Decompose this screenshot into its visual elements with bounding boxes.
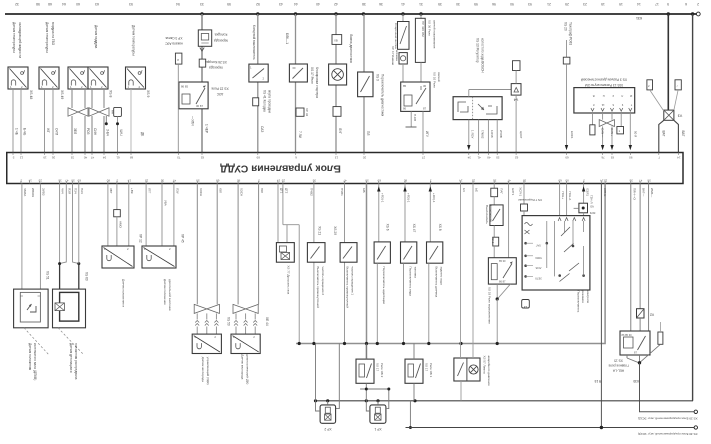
wire mode pin1 [559, 184, 561, 216]
svg-text:ХР 12: ХР 12 [139, 234, 143, 243]
open arrowhead on wire [200, 48, 204, 52]
svg-text:XS 30 Блок предохранителей, жг: XS 30 Блок предохранителей, жгут ЭСУД [637, 432, 697, 436]
svg-text:76: 76 [601, 156, 605, 160]
wire V3 to ECU BAT right [674, 120, 679, 152]
svg-text:ПЗЧ: ПЗЧ [74, 188, 78, 194]
wire K30 down [640, 363, 695, 412]
svg-text:переезда: переезда [214, 39, 228, 43]
svg-text:89: 89 [256, 156, 260, 160]
wire overheat relay right pin [508, 184, 510, 258]
connector above V4 small box [513, 61, 521, 71]
svg-text:аварийного давления: аварийного давления [487, 356, 491, 386]
wire tps1 pin2 lower [116, 217, 118, 246]
svg-text:накала АЗС: накала АЗС [165, 42, 183, 46]
svg-text:вставка: вставка [395, 50, 399, 61]
wire knock connector to ECU with node [117, 116, 119, 152]
svg-text:Датчик кислорода: Датчик кислорода [201, 357, 205, 382]
svg-text:62: 62 [515, 156, 519, 160]
svg-text:ЕЗЯ1: ЕЗЯ1 [585, 189, 589, 197]
svg-text:61: 61 [116, 156, 120, 160]
svg-text:переезда: переезда [209, 66, 223, 70]
svg-text:Главное реле: Главное реле [608, 364, 628, 368]
wire tps2 pin2 [161, 184, 163, 247]
wire O2-1 drops with break marks [196, 313, 198, 319]
terminal open circle K15 rail [694, 426, 697, 429]
svg-text:50Б9: 50Б9 [535, 256, 542, 260]
wire relay1 top [365, 344, 367, 360]
svg-text:АМО: АМО [119, 221, 123, 229]
svg-text:XS 15: XS 15 [614, 359, 623, 363]
wire XS 8 to rail [428, 263, 430, 343]
svg-text:80: 80 [237, 179, 241, 183]
wire stub drop to injector2 right [386, 389, 389, 409]
wire to brake switch [493, 197, 495, 205]
svg-text:ЕЗГ1: ЕЗГ1 [511, 188, 515, 195]
relay XS17-1 box [405, 359, 423, 383]
svg-text:BAT: BAT [661, 131, 665, 137]
svg-text:47: 47 [65, 179, 69, 183]
svg-text:86 85 30: 86 85 30 [622, 333, 633, 337]
injector XP1 box [370, 405, 386, 423]
svg-text:64: 64 [62, 2, 66, 6]
terminal box with node [579, 203, 588, 213]
svg-text:13: 13 [524, 305, 528, 309]
svg-text:АЗС: АЗС [216, 92, 223, 96]
svg-text:XS 8: XS 8 [438, 224, 442, 231]
svg-text:69: 69 [77, 179, 81, 183]
svg-text:7 ЛИ: 7 ЛИ [298, 131, 302, 139]
svg-text:ЛУГ: ЛУГ [338, 128, 342, 134]
svg-text:Переключатель вида: Переключатель вида [409, 267, 413, 297]
ECU bottom pin numbers [20, 181, 22, 184]
svg-text:86: 86 [403, 107, 407, 111]
wire right border feeder [692, 14, 694, 401]
svg-text:25: 25 [281, 179, 285, 183]
wire knock core right join [73, 184, 79, 264]
wire connector slant to node [640, 344, 660, 362]
svg-text:85: 85 [403, 84, 407, 88]
svg-text:XS 36 Реле: XS 36 Реле [428, 20, 432, 36]
wire fused feeder 403 upper [402, 14, 404, 22]
svg-text:15: 15 [601, 2, 605, 6]
wire thick feeder 605 [296, 184, 605, 344]
connector block Kolodka box [198, 30, 211, 46]
svg-text:Выключатель: Выключатель [485, 205, 489, 224]
svg-text:17: 17 [655, 2, 659, 6]
svg-text:34: 34 [467, 156, 471, 160]
injector XP2 box [320, 405, 336, 423]
wire XP3 to ECU [177, 64, 179, 152]
svg-text:Выключатель промежуточной: Выключатель промежуточной [316, 267, 320, 309]
wire 339 drop to injector1 [336, 344, 340, 409]
wire connector slant to V3 [650, 90, 664, 111]
svg-text:ХСЯ-1: ХСЯ-1 [519, 187, 523, 196]
relay output stub to glow plugs [410, 111, 412, 127]
suppressor V3 box [664, 110, 674, 120]
svg-text:Я 15: Я 15 [594, 379, 601, 383]
svg-text:V5: V5 [590, 205, 594, 209]
svg-text:Лампа диагностики: Лампа диагностики [349, 34, 353, 63]
terminal open circle K30 rail [694, 410, 697, 413]
svg-text:XS 13 Регулятор: XS 13 Регулятор [476, 38, 480, 63]
svg-text:В: В [593, 94, 595, 98]
svg-text:32: 32 [15, 2, 19, 6]
svg-text:АГ 6: АГ 6 [491, 237, 495, 243]
svg-text:Л: Л [177, 58, 179, 62]
wire main relay pin3 [648, 184, 650, 332]
svg-text:Переключатель: Переключатель [577, 291, 581, 313]
connector right of V3 small box [675, 80, 681, 90]
svg-text:управляющий (УДК): управляющий (УДК) [206, 357, 210, 385]
svg-text:контроля: контроля [586, 291, 590, 304]
svg-text:топлива: топлива [413, 267, 417, 279]
svg-text:6: 6 [685, 2, 687, 6]
wire mode pin3 with arrow [583, 184, 585, 204]
svg-text:+В9: +В9 [130, 188, 134, 194]
diode V4 box [511, 84, 521, 96]
svg-text:68: 68 [48, 2, 52, 6]
svg-text:ДД: ДД [111, 110, 115, 114]
svg-text:НЕL-LA: НЕL-LA [612, 369, 624, 373]
wire combo bottom drop [460, 381, 462, 401]
svg-text:13: 13 [335, 156, 339, 160]
svg-text:дроссельной заслонки: дроссельной заслонки [168, 279, 172, 311]
node junctions on injector rail [314, 399, 317, 402]
svg-text:Реле ЭБ 2: Реле ЭБ 2 [380, 363, 384, 378]
svg-text:ЗВГ: ЗВГ [109, 188, 113, 194]
wire mode pin2 [566, 184, 568, 216]
svg-text:80: 80 [565, 179, 569, 183]
svg-text:96: 96 [492, 2, 496, 6]
svg-text:003 13 Разъем жгута ОМ: 003 13 Разъем жгута ОМ [585, 83, 623, 87]
svg-text:47: 47 [172, 179, 176, 183]
svg-text:Выключатель промежуточной: Выключатель промежуточной [346, 267, 350, 309]
svg-text:заднего хода: заднего хода [439, 267, 443, 285]
relay output stub [360, 388, 389, 390]
twisted pair symbol 1 [68, 108, 88, 116]
relay XS15 AZS box [179, 82, 208, 109]
svg-text:свечей накаливания: свечей накаливания [432, 20, 436, 49]
wire relay2 drop to K15 rail [409, 401, 411, 428]
svg-text:+ЯЗ(-1: +ЯЗ(-1 [432, 193, 436, 203]
svg-text:ПЧВ2: ПЧВ2 [310, 188, 314, 196]
wire main relay pin2 lower [639, 318, 641, 331]
svg-text:82: 82 [201, 156, 205, 160]
wire battery feeder [667, 14, 669, 110]
svg-text:К7В-Е: К7В-Е [603, 188, 607, 196]
svg-text:58: 58 [36, 2, 40, 6]
svg-text:М: М [630, 94, 632, 98]
svg-text:XS 8: XS 8 [109, 90, 113, 97]
svg-text:ПЯН—О: ПЯН—О [632, 188, 636, 200]
svg-text:Датчик температуры: Датчик температуры [45, 22, 49, 53]
svg-text:19: 19 [619, 2, 623, 6]
svg-text:41: 41 [401, 2, 405, 6]
wire bosch pin2 to ECU [478, 120, 480, 152]
svg-text:охлаждающей жидкости: охлаждающей жидкости [18, 22, 22, 58]
svg-text:ИМ6—: ИМ6— [650, 188, 654, 197]
fusible link box 421 [415, 18, 425, 62]
svg-text:14: 14 [677, 156, 681, 160]
svg-text:ГЛ682: ГЛ682 [481, 130, 485, 139]
svg-text:ЛГГ: ЛГГ [148, 188, 152, 194]
svg-text:55: 55 [496, 156, 500, 160]
wire stub drop to box [286, 225, 288, 243]
connector small box right [658, 332, 663, 344]
connector left of V3 small box [647, 80, 653, 90]
speed switch XS29 box [340, 243, 357, 263]
svg-text:14: 14 [600, 179, 604, 183]
svg-text:диагностический (ДК): диагностический (ДК) [246, 354, 250, 384]
wire XS 47 to rail [403, 263, 405, 343]
svg-text:1 ЯЗУ: 1 ЯЗУ [471, 130, 475, 138]
svg-text:25: 25 [472, 179, 476, 183]
terminal K31 open circle [696, 12, 700, 16]
svg-text:36: 36 [58, 179, 62, 183]
svg-text:Датчик положения и: Датчик положения и [122, 279, 126, 308]
svg-text:ПЛ: ПЛ [366, 131, 370, 135]
wire V4 to ECU [515, 95, 517, 152]
svg-text:36: 36 [312, 179, 316, 183]
svg-text:25: 25 [38, 179, 42, 183]
svg-text:14: 14 [127, 179, 131, 183]
svg-text:V3: V3 [678, 114, 682, 118]
svg-text:частоты вращения 2: частоты вращения 2 [321, 267, 325, 296]
selector switch box XS 47 [401, 242, 417, 263]
svg-text:XS 3 Разъем диагностический: XS 3 Разъем диагностический [581, 78, 627, 82]
connector XB1 small box [332, 35, 342, 45]
svg-text:режимов: режимов [581, 291, 585, 304]
wire relay2 top [413, 344, 415, 360]
svg-text:торможения: торможения [489, 205, 493, 222]
svg-text:ЫБ: ЫБ [362, 188, 366, 193]
svg-text:30: 30 [456, 2, 460, 6]
svg-text:85 30: 85 30 [499, 259, 506, 263]
injector supply rail [316, 400, 694, 402]
wire XS 6 with up arrow [378, 184, 380, 242]
wire XS8 pair B lower to ECU [91, 116, 93, 152]
lamp diagnostics box [329, 64, 347, 85]
svg-text:21: 21 [547, 2, 551, 6]
svg-text:Блок управления СУДД: Блок управления СУДД [220, 163, 341, 174]
wire fuse to relay [493, 246, 495, 258]
svg-text:ЬЧ: ЬЧ [462, 188, 466, 192]
shield drain stub with node [105, 116, 107, 124]
svg-text:50 Я: 50 Я [633, 131, 637, 137]
wire link to relay [420, 62, 422, 82]
connector XS41 small box [253, 98, 259, 106]
svg-text:44: 44 [294, 2, 298, 6]
wire diag pin4 down [620, 113, 622, 127]
svg-text:ХР 3 Свеча: ХР 3 Свеча [165, 36, 182, 40]
wire thick feeder 202 [201, 14, 203, 152]
relay XS17-2 box [356, 359, 374, 383]
ECU top pin numbers [12, 153, 14, 156]
svg-text:20: 20 [363, 156, 367, 160]
svg-text:жгута проводки: жгута проводки [268, 90, 272, 113]
wire connector to V3 right [674, 90, 678, 110]
node junctions on supply bus [200, 12, 203, 15]
svg-text:ЮЛ: ЮЛ [260, 188, 264, 193]
wire O2-2 pair to bowtie [237, 184, 239, 305]
wire knock shield left [59, 184, 61, 264]
svg-text:Н: Н [603, 94, 605, 98]
wire XS8 pair A lower to ECU [71, 116, 73, 152]
svg-text:CAN+: CAN+ [610, 128, 614, 136]
fuse AG6 box [493, 237, 499, 246]
svg-text:ПЧВ1: ПЧВ1 [340, 188, 344, 196]
crank sensor XS51 box [14, 289, 49, 328]
wire XS48 pin1 to ECU [12, 89, 14, 152]
svg-text:2: 2 [697, 2, 699, 6]
idle actuator XS13 BOSCH box [453, 97, 502, 120]
svg-text:41: 41 [477, 156, 481, 160]
wire fused feeder 421 upper [420, 14, 422, 18]
svg-text:26: 26 [52, 156, 56, 160]
svg-text:ЧАЧ: ЧАЧ [61, 188, 65, 194]
svg-text:Датчик детонации и: Датчик детонации и [69, 343, 73, 373]
svg-text:V2: V2 [650, 313, 654, 317]
svg-text:Г2Н-Л: Г2Н-Л [590, 195, 594, 203]
svg-text:42: 42 [334, 2, 338, 6]
svg-text:УБА: УБА [164, 200, 168, 206]
node main relay output [638, 361, 641, 364]
svg-text:ХЕ 44: ХЕ 44 [265, 317, 269, 326]
wire CAN- to ECU with arrow [602, 126, 604, 148]
svg-text:54: 54 [103, 156, 107, 160]
connector under pin1 small box [590, 125, 595, 135]
sensor XS8b second cell [88, 67, 108, 89]
svg-text:XS 57 Лампа: XS 57 Лампа [482, 356, 486, 374]
svg-text:43: 43 [279, 2, 283, 6]
svg-text:36: 36 [629, 179, 633, 183]
svg-text:47: 47 [343, 179, 347, 183]
svg-text:З-БЧ: З-БЧ [106, 129, 110, 136]
svg-text:69: 69 [377, 179, 381, 183]
svg-text:СИН: СИН [93, 128, 97, 136]
wire XS 8 with up arrow [429, 184, 431, 242]
svg-text:14: 14 [28, 179, 32, 183]
wire loop to injector1 [316, 401, 321, 411]
wire XS 47 with up arrow [404, 184, 406, 242]
connector tacho small box [563, 57, 570, 64]
svg-text:воздуха на ГБО: воздуха на ГБО [51, 22, 55, 46]
svg-text:23: 23 [583, 2, 587, 6]
connector under pin4 small box [617, 127, 624, 134]
speed switch XS21 box [307, 243, 325, 263]
svg-text:ИГУ: ИГУ [425, 131, 429, 138]
throttle actuator XS77 box [276, 243, 294, 263]
svg-text:XS 26 Колодка: XS 26 Колодка [205, 60, 227, 64]
twisted pair symbol 2 [89, 108, 109, 116]
svg-text:Концевой выключатель: Концевой выключатель [252, 25, 256, 60]
svg-text:БЛК—1: БЛК—1 [285, 33, 289, 44]
svg-text:27: 27 [422, 156, 426, 160]
switch box pedal [249, 64, 268, 82]
wire crank pin1 [21, 184, 23, 290]
svg-text:XS 77 Дроссель газа: XS 77 Дроссель газа [286, 265, 290, 294]
diagnostic connector XS3 box [574, 88, 635, 113]
wire terminal to mode box [583, 213, 585, 216]
sensor XS9 fuel temp sensor box [126, 67, 146, 89]
svg-text:XS 20: XS 20 [564, 22, 568, 31]
sensor XS48 coolant temp sensor box [8, 67, 28, 89]
svg-text:69: 69 [558, 179, 562, 183]
svg-text:Переключатель адаптации: Переключатель адаптации [382, 267, 386, 305]
svg-text:40: 40 [316, 2, 320, 6]
svg-text:ПАГ: ПАГ [500, 188, 504, 194]
svg-text:XS 10 Реле: XS 10 Реле [433, 72, 437, 88]
wire stub horizontal [283, 224, 299, 226]
wire CAN+ to ECU with arrow [611, 126, 613, 148]
wire tps1 pin3 [128, 184, 130, 247]
svg-text:свечей: свечей [437, 72, 441, 82]
svg-text:ИВ901: ИВ901 [31, 188, 35, 197]
wire main relay pin1 [630, 184, 632, 332]
wire relay1 bottom to stub [365, 383, 367, 401]
throttle sensor XS45 box [142, 246, 176, 268]
svg-text:ХЗСН: ХЗСН [240, 188, 244, 196]
wire pedal switch feeder [257, 14, 259, 152]
svg-text:14: 14 [637, 2, 641, 6]
wire connector to V4 [515, 71, 517, 84]
connector XS26 small box [199, 59, 206, 67]
svg-text:58: 58 [523, 179, 527, 183]
svg-text:ЖГ: ЖГ [46, 128, 50, 133]
twisted pair symbol CAN [599, 120, 614, 127]
sensor XS8 boost pressure sensor box [68, 67, 88, 89]
svg-text:ДГ1: ДГ1 [280, 188, 284, 194]
svg-text:86 87: 86 87 [499, 280, 506, 284]
wire XS77 pin1 [277, 184, 279, 243]
mode selector switch box [522, 216, 590, 290]
svg-text:XS 59: XS 59 [227, 317, 231, 326]
svg-text:ЯЗЯ: ЯЗЯ [68, 188, 72, 194]
svg-text:48: 48 [487, 156, 491, 160]
svg-text:1 ЧБ: 1 ЧБ [15, 128, 19, 135]
knock sensor connector small box [114, 107, 122, 116]
svg-text:Датчик положения: Датчик положения [163, 279, 167, 305]
svg-text:XS 41 Колодка: XS 41 Колодка [263, 90, 267, 112]
svg-text:90: 90 [629, 156, 633, 160]
svg-text:ХР2: ХР2 [589, 211, 595, 215]
svg-text:63: 63 [95, 2, 99, 6]
wire tps2 pin3 [173, 184, 175, 247]
svg-text:ГСН-А: ГСН-А [568, 192, 572, 201]
svg-text:CAN—: CAN— [600, 128, 604, 137]
svg-text:90: 90 [510, 2, 514, 6]
svg-text:58: 58 [647, 179, 651, 183]
wire bosch pin3 to ECU [487, 120, 489, 152]
svg-text:19: 19 [43, 156, 47, 160]
connector XP3 small box [175, 53, 182, 64]
svg-text:XS 21: XS 21 [318, 226, 322, 235]
svg-text:47: 47 [639, 179, 643, 183]
svg-text:XS 48: XS 48 [29, 90, 33, 99]
wire bosch pin1 above [468, 90, 470, 97]
svg-text:30: 30 [423, 84, 427, 88]
svg-text:75: 75 [177, 156, 181, 160]
svg-text:ЮЛ: ЮЛ [219, 188, 223, 193]
svg-text:ЗЕЛ: ЗЕЛ [73, 128, 77, 134]
connector inline small box [114, 210, 121, 217]
wire knock core left join [60, 184, 67, 264]
knock sensor XS69 box [53, 289, 86, 328]
svg-text:ЛЗУ: ЛЗУ [176, 188, 180, 194]
wire loop to injector2 [366, 401, 370, 411]
svg-text:40: 40 [84, 156, 88, 160]
wire crank pin2 [39, 184, 41, 290]
